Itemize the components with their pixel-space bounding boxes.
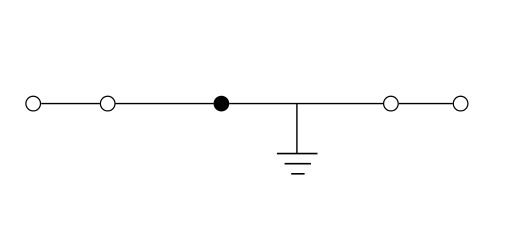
junction [214, 96, 230, 112]
wire [296, 104, 298, 154]
wire [399, 103, 453, 105]
ground [277, 154, 318, 174]
wire [116, 103, 214, 105]
wire [229, 103, 383, 105]
node A [26, 96, 41, 111]
node D [453, 96, 468, 111]
node B [100, 96, 115, 111]
node C [384, 96, 399, 111]
wire [41, 103, 100, 105]
